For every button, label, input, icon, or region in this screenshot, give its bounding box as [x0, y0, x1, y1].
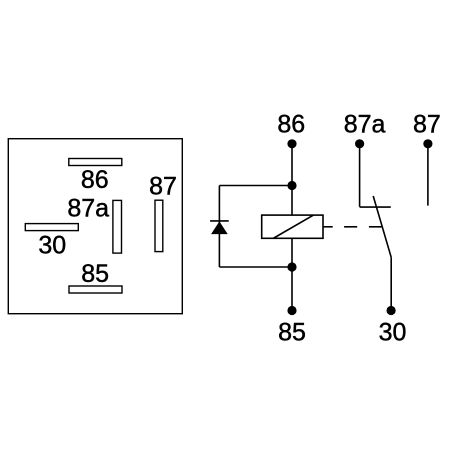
svg-text:87: 87	[413, 111, 441, 139]
contact bar 87a (normally-closed fixed contact)	[360, 206, 391, 208]
svg-text:87a: 87a	[344, 111, 386, 139]
diode D1 (flyback, cathode bar)	[210, 220, 229, 222]
node: terminal 30	[387, 306, 396, 315]
relay coil K1	[262, 215, 323, 238]
relay connector body outline	[8, 139, 182, 314]
node: terminal 87a	[355, 139, 364, 148]
wire: diode branch left vertical	[218, 186, 220, 268]
coil diagonal slash	[273, 215, 314, 238]
svg-text:85: 85	[81, 260, 109, 288]
wire: terminal 87a down	[359, 144, 361, 207]
terminal blade 30 (left horizontal)	[25, 224, 78, 231]
svg-text:87a: 87a	[67, 195, 109, 223]
svg-text:30: 30	[38, 232, 66, 260]
svg-text:85: 85	[278, 318, 306, 346]
terminal blade 87a (vertical)	[113, 200, 122, 253]
svg-text:87: 87	[149, 172, 177, 200]
linkage stub from coil	[323, 226, 333, 228]
linkage dash 2	[344, 226, 357, 228]
switch arm (movable contact)	[373, 196, 391, 257]
wire: terminal 87 down (normally-open contact)	[427, 144, 429, 206]
linkage dash 3	[369, 226, 382, 228]
svg-text:30: 30	[379, 318, 407, 346]
wire: diode branch bottom horizontal	[219, 266, 292, 268]
wire: terminal 86 down to coil	[291, 144, 293, 215]
diode D1 triangle (anode, pointing up)	[212, 222, 227, 233]
wire: coil down to terminal 85	[291, 238, 293, 310]
svg-text:86: 86	[81, 166, 109, 194]
terminal blade 87 (vertical)	[155, 200, 163, 251]
terminal blade 86 (top horizontal)	[69, 159, 122, 166]
junction: coil top / diode	[287, 181, 296, 190]
svg-text:86: 86	[277, 111, 305, 139]
wire: switch arm down to terminal 30	[390, 257, 392, 310]
wire: diode branch top horizontal	[219, 185, 292, 187]
junction: coil bottom / diode	[287, 262, 296, 271]
terminal blade 85 (bottom horizontal)	[69, 286, 122, 293]
node: terminal 85	[287, 306, 296, 315]
node: terminal 87	[423, 139, 432, 148]
node: terminal 86	[287, 139, 296, 148]
